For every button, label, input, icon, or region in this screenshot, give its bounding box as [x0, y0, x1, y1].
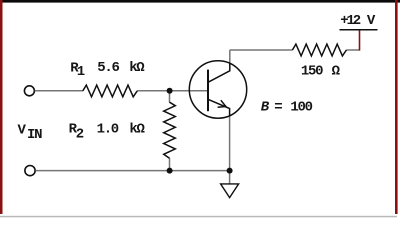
transistor Q1 base bar [207, 70, 209, 112]
svg-text:100: 100 [290, 100, 312, 116]
svg-text:V: V [367, 13, 376, 29]
svg-text:2: 2 [76, 127, 84, 143]
wire: collector rail to R3 [230, 49, 293, 51]
border frame [0, 0, 400, 3]
terminal (V_IN -) [25, 166, 35, 176]
junction node (base/R2) [167, 88, 173, 94]
resistor R1 (5.6 k) [83, 85, 137, 97]
wire: top terminal to R1 [35, 90, 83, 92]
svg-text:1: 1 [77, 64, 85, 80]
wire: R2 top lead [169, 91, 171, 103]
svg-text:=: = [274, 100, 282, 116]
wire: R1 to base bar [137, 90, 208, 92]
svg-text:+12: +12 [340, 13, 360, 29]
terminal (V_IN +) [24, 86, 34, 96]
wire: R3 to supply corner [346, 49, 359, 51]
wire: bottom rail [36, 170, 230, 172]
wire: supply lead (red) [359, 30, 361, 51]
ground [221, 184, 239, 198]
wire: collector lead [229, 50, 231, 64]
wire: emitter lead [229, 116, 231, 171]
transistor Q1 emitter stroke [208, 99, 230, 116]
resistor R2 (1.0 k) [164, 102, 176, 158]
svg-text:5.6: 5.6 [97, 60, 119, 76]
svg-text:kΩ: kΩ [129, 60, 145, 76]
wire: R2 bottom lead [169, 158, 171, 171]
svg-text:kΩ: kΩ [129, 122, 145, 138]
wire: ground drop [229, 171, 231, 184]
svg-text:1.0: 1.0 [97, 122, 119, 138]
resistor R3 (150 ohm) [292, 44, 346, 56]
junction node (R2 bottom) [167, 168, 173, 174]
svg-text:IN: IN [27, 127, 42, 143]
svg-text:V: V [18, 122, 27, 138]
svg-text:Ω: Ω [332, 64, 341, 80]
svg-text:B: B [261, 100, 270, 116]
supply bar (+12 V) [340, 29, 378, 31]
transistor Q1 collector stroke [208, 63, 230, 82]
transistor Q1 emitter arrow [218, 100, 226, 107]
junction node (emitter/ground) [227, 168, 233, 174]
svg-text:150: 150 [301, 64, 323, 80]
transistor Q1 circle [189, 61, 246, 118]
